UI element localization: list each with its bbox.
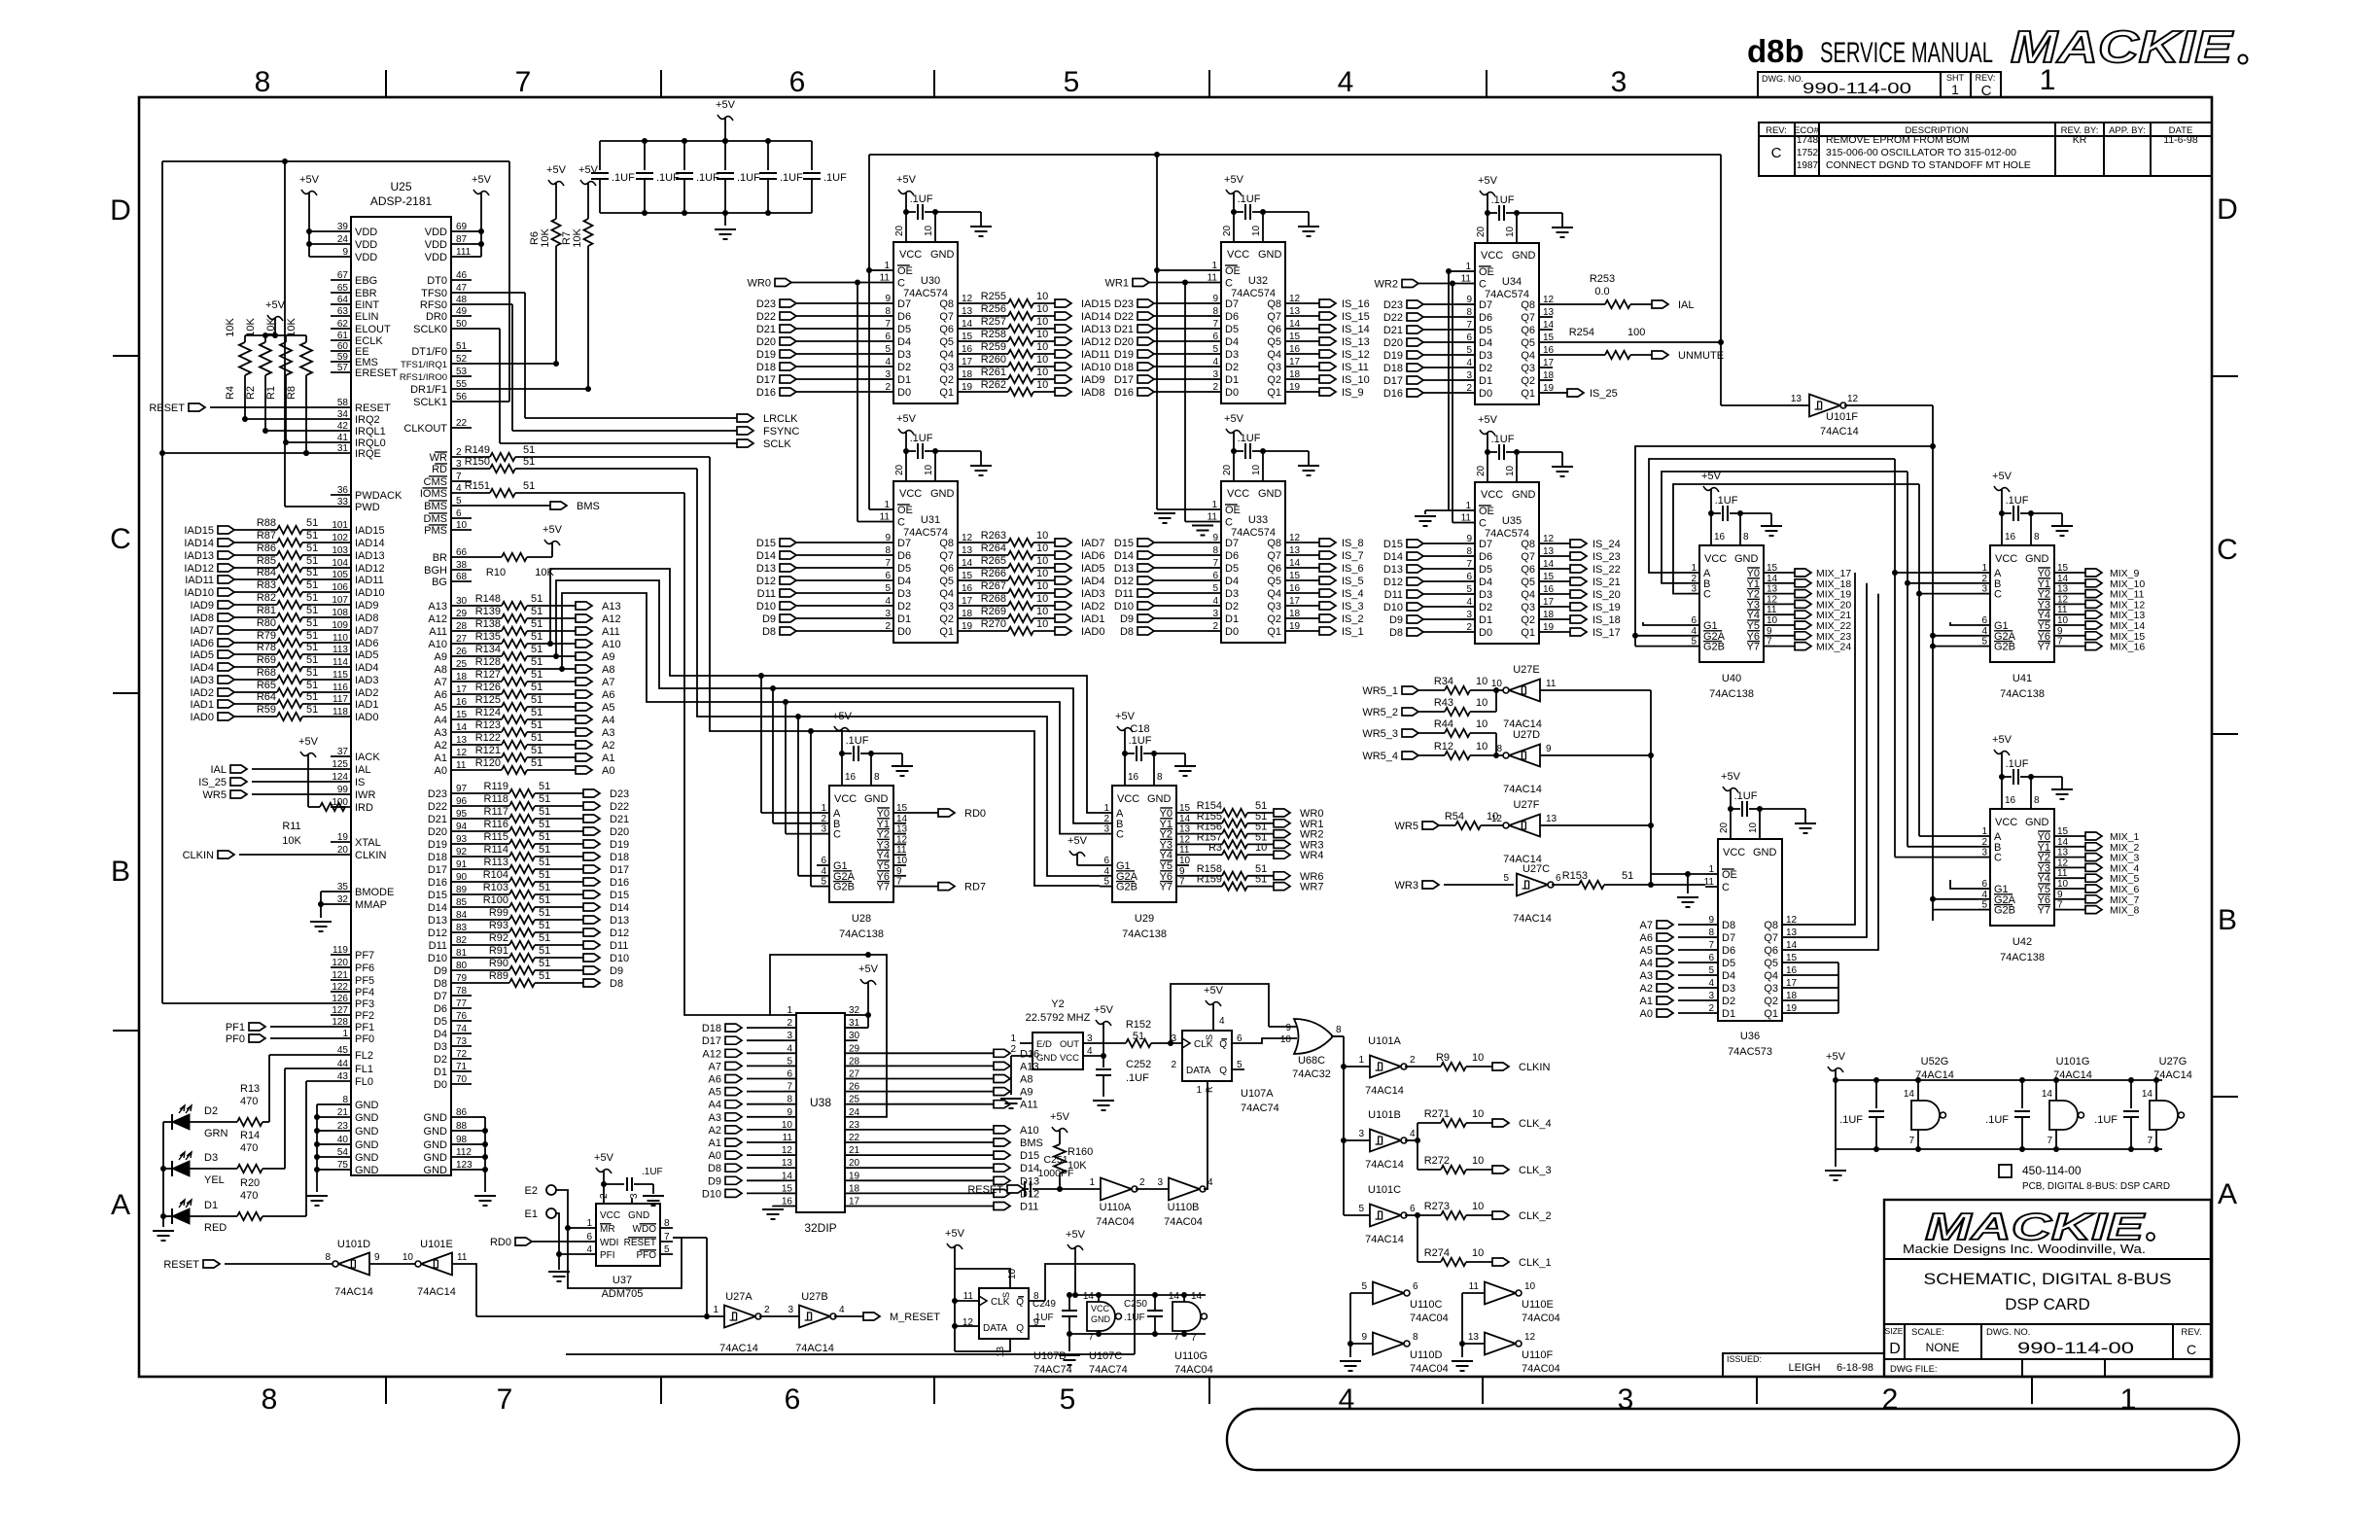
svg-text:R150: R150 <box>465 456 490 468</box>
svg-text:4: 4 <box>1103 866 1109 877</box>
svg-text:22: 22 <box>456 418 468 429</box>
svg-text:U36: U36 <box>1740 1031 1760 1042</box>
svg-text:51: 51 <box>539 907 550 919</box>
svg-text:R89: R89 <box>489 970 508 982</box>
svg-text:85: 85 <box>456 897 468 908</box>
svg-text:TFS0: TFS0 <box>421 288 447 299</box>
svg-text:D11: D11 <box>429 940 447 952</box>
svg-text:R124: R124 <box>475 707 501 718</box>
svg-text:Mackie Designs Inc. Woodinvi: Mackie Designs Inc. Woodinville, Wa. <box>1903 1242 2146 1256</box>
svg-text:IAD12: IAD12 <box>1081 336 1111 348</box>
svg-text:D22: D22 <box>756 311 776 323</box>
svg-text:2: 2 <box>821 814 826 824</box>
svg-text:2: 2 <box>885 621 891 632</box>
svg-text:18: 18 <box>1289 369 1301 380</box>
svg-text:9: 9 <box>885 294 891 304</box>
svg-text:73: 73 <box>456 1036 468 1047</box>
svg-text:R151: R151 <box>465 480 490 492</box>
svg-text:3: 3 <box>1466 610 1472 620</box>
svg-text:51: 51 <box>539 806 550 818</box>
svg-text:2: 2 <box>1212 621 1218 632</box>
svg-text:10: 10 <box>1524 1281 1536 1292</box>
svg-text:9: 9 <box>1466 295 1472 305</box>
svg-text:RFS0: RFS0 <box>420 299 447 311</box>
svg-text:D4: D4 <box>897 576 911 587</box>
svg-text:39: 39 <box>337 222 349 232</box>
svg-text:7: 7 <box>2057 900 2063 911</box>
svg-text:12: 12 <box>1543 534 1555 544</box>
svg-text:Q7: Q7 <box>1521 312 1535 324</box>
svg-text:88: 88 <box>456 1121 468 1132</box>
svg-text:Q5: Q5 <box>1267 336 1281 348</box>
svg-text:R119: R119 <box>484 781 508 792</box>
svg-text:Q6: Q6 <box>939 324 954 335</box>
svg-text:3: 3 <box>1103 824 1109 835</box>
svg-text:5: 5 <box>1212 583 1218 594</box>
svg-text:D2: D2 <box>1722 996 1735 1007</box>
svg-text:D11: D11 <box>757 588 776 600</box>
svg-text:D2: D2 <box>1479 602 1492 613</box>
svg-text:68: 68 <box>456 572 468 582</box>
svg-text:D15: D15 <box>610 890 629 901</box>
svg-text:122: 122 <box>332 982 348 993</box>
svg-text:10: 10 <box>1036 303 1048 315</box>
svg-text:GND: GND <box>355 1139 379 1151</box>
svg-text:16: 16 <box>1289 583 1301 594</box>
svg-text:Q: Q <box>1219 1039 1227 1050</box>
svg-text:PF5: PF5 <box>355 975 374 987</box>
svg-text:7: 7 <box>2057 637 2063 647</box>
svg-text:17: 17 <box>456 684 468 695</box>
svg-text:48: 48 <box>456 295 468 305</box>
svg-text:470: 470 <box>240 1096 258 1107</box>
svg-text:GND: GND <box>1147 793 1172 805</box>
svg-text:11: 11 <box>456 760 467 771</box>
svg-text:19: 19 <box>1543 622 1555 633</box>
svg-text:51: 51 <box>531 757 542 769</box>
svg-text:74AC32: 74AC32 <box>1292 1068 1331 1080</box>
svg-text:8: 8 <box>1413 1332 1418 1343</box>
svg-text:WR5: WR5 <box>1395 821 1418 832</box>
svg-text:D1: D1 <box>1722 1008 1735 1020</box>
svg-text:D3: D3 <box>1479 350 1492 362</box>
svg-text:R272: R272 <box>1424 1155 1450 1167</box>
svg-text:103: 103 <box>332 545 348 556</box>
svg-text:VCC: VCC <box>1091 1304 1110 1313</box>
svg-text:WR5_3: WR5_3 <box>1362 728 1398 740</box>
svg-text:12: 12 <box>1179 834 1191 845</box>
svg-text:IWR: IWR <box>355 789 375 801</box>
svg-text:10: 10 <box>924 464 934 475</box>
svg-text:16: 16 <box>2005 532 2016 542</box>
svg-text:RD7: RD7 <box>964 882 986 893</box>
svg-text:D19: D19 <box>1114 349 1134 361</box>
svg-text:D2: D2 <box>434 1054 447 1066</box>
svg-text:IAD2: IAD2 <box>355 687 378 699</box>
svg-text:LEIGH: LEIGH <box>1788 1362 1820 1374</box>
svg-text:32DIP: 32DIP <box>804 1221 836 1235</box>
svg-text:U107A: U107A <box>1241 1088 1274 1100</box>
svg-text:27: 27 <box>456 634 468 645</box>
svg-text:D9: D9 <box>1389 614 1403 626</box>
svg-text:.1UF: .1UF <box>1839 1114 1863 1126</box>
svg-text:IAD8: IAD8 <box>191 612 214 624</box>
svg-text:14: 14 <box>1289 558 1301 569</box>
svg-text:Q1: Q1 <box>1521 388 1535 400</box>
svg-text:REV:: REV: <box>1766 125 1787 136</box>
svg-text:D14: D14 <box>1114 550 1134 562</box>
svg-text:5: 5 <box>821 877 826 888</box>
svg-text:IAD5: IAD5 <box>191 649 214 661</box>
svg-text:81: 81 <box>456 948 468 959</box>
svg-text:A10: A10 <box>602 639 621 650</box>
svg-text:6: 6 <box>1103 856 1109 866</box>
svg-text:14: 14 <box>1767 574 1778 584</box>
svg-text:A6: A6 <box>709 1074 721 1086</box>
svg-text:R81: R81 <box>257 605 276 616</box>
svg-text:IAD9: IAD9 <box>191 600 214 612</box>
svg-text:74: 74 <box>456 1024 468 1034</box>
svg-text:990-114-00: 990-114-00 <box>1802 81 1911 97</box>
svg-text:IAD5: IAD5 <box>355 649 378 661</box>
svg-text:2: 2 <box>1010 1044 1016 1055</box>
svg-text:8: 8 <box>2034 532 2040 542</box>
svg-text:VDD: VDD <box>355 252 377 263</box>
svg-text:DATA: DATA <box>1186 1066 1211 1076</box>
svg-text:3: 3 <box>787 1305 793 1315</box>
svg-text:51: 51 <box>531 656 542 668</box>
svg-text:R160: R160 <box>1067 1146 1093 1158</box>
svg-text:IAD6: IAD6 <box>355 638 378 649</box>
svg-text:R99: R99 <box>489 907 508 919</box>
svg-text:Q1: Q1 <box>939 626 954 638</box>
svg-text:3: 3 <box>1212 609 1218 619</box>
svg-text:60: 60 <box>337 341 349 352</box>
svg-text:1987: 1987 <box>1797 160 1819 171</box>
svg-text:D3: D3 <box>204 1152 218 1164</box>
svg-text:19: 19 <box>962 382 973 393</box>
svg-text:470: 470 <box>240 1142 258 1154</box>
svg-text:D16: D16 <box>1383 388 1403 400</box>
svg-text:55: 55 <box>456 379 468 390</box>
svg-text:D18: D18 <box>610 852 629 863</box>
svg-text:10: 10 <box>1036 580 1048 592</box>
svg-text:WR0: WR0 <box>748 278 771 290</box>
svg-text:4: 4 <box>885 357 891 367</box>
svg-text:MMAP: MMAP <box>355 899 387 911</box>
svg-text:D5: D5 <box>897 324 911 335</box>
svg-text:BMS: BMS <box>1020 1137 1043 1149</box>
svg-text:15: 15 <box>1289 332 1301 342</box>
svg-text:D19: D19 <box>428 839 447 851</box>
svg-text:GND: GND <box>355 1126 379 1137</box>
svg-text:D23: D23 <box>610 788 629 800</box>
svg-text:OE: OE <box>897 505 913 516</box>
svg-text:WR1: WR1 <box>1105 278 1129 290</box>
svg-text:51: 51 <box>306 642 318 653</box>
svg-text:LRCLK: LRCLK <box>763 413 798 425</box>
svg-text:C: C <box>1771 145 1782 161</box>
svg-text:ELIN: ELIN <box>355 311 379 323</box>
svg-text:3: 3 <box>629 1193 640 1199</box>
svg-text:51: 51 <box>539 882 550 893</box>
svg-text:14: 14 <box>1191 1291 1203 1302</box>
svg-text:IS_4: IS_4 <box>1342 588 1364 600</box>
svg-text:Y2: Y2 <box>1051 998 1064 1010</box>
svg-text:7: 7 <box>515 66 532 98</box>
svg-text:51: 51 <box>531 669 542 681</box>
svg-text:51: 51 <box>539 831 550 843</box>
svg-text:Q7: Q7 <box>939 311 954 323</box>
svg-text:8: 8 <box>1496 744 1502 754</box>
svg-text:IAD2: IAD2 <box>1081 601 1104 612</box>
svg-text:D16: D16 <box>610 877 629 889</box>
svg-text:U110A: U110A <box>1100 1202 1132 1213</box>
svg-text:BMS: BMS <box>577 501 600 512</box>
svg-text:40: 40 <box>337 1135 349 1145</box>
svg-text:CMS: CMS <box>424 476 447 488</box>
svg-text:124: 124 <box>332 772 348 783</box>
svg-text:D15: D15 <box>1020 1150 1039 1162</box>
svg-text:R268: R268 <box>981 593 1006 605</box>
svg-text:6: 6 <box>885 571 891 581</box>
svg-text:R80: R80 <box>257 617 276 629</box>
svg-text:2: 2 <box>885 382 891 393</box>
svg-text:D13: D13 <box>756 563 776 575</box>
svg-text:IS: IS <box>355 777 365 788</box>
svg-text:7: 7 <box>664 1232 670 1242</box>
svg-text:PF1: PF1 <box>355 1022 374 1033</box>
svg-text:5: 5 <box>885 583 891 594</box>
svg-text:6: 6 <box>1981 615 1987 626</box>
svg-text:12: 12 <box>2057 857 2069 868</box>
svg-text:52: 52 <box>456 354 468 365</box>
svg-text:DWG. NO.: DWG. NO. <box>1762 74 1803 84</box>
svg-text:6: 6 <box>1466 572 1472 582</box>
svg-text:D15: D15 <box>1383 539 1403 550</box>
svg-text:GND: GND <box>864 793 889 805</box>
svg-text:Q1: Q1 <box>1267 626 1281 638</box>
svg-text:OE: OE <box>1225 265 1241 277</box>
svg-text:5: 5 <box>1691 637 1697 647</box>
svg-text:R138: R138 <box>475 618 501 630</box>
svg-text:3: 3 <box>821 824 826 835</box>
svg-text:Q4: Q4 <box>1267 588 1281 600</box>
svg-text:74AC138: 74AC138 <box>2000 688 2045 700</box>
svg-text:10: 10 <box>1036 606 1048 617</box>
svg-text:D18: D18 <box>1114 362 1134 373</box>
svg-text:R88: R88 <box>257 517 276 529</box>
svg-text:7: 7 <box>2047 1136 2052 1146</box>
svg-text:Q3: Q3 <box>1521 363 1535 374</box>
svg-text:GRN: GRN <box>204 1128 228 1139</box>
svg-text:Q7: Q7 <box>1764 932 1778 944</box>
svg-text:R113: R113 <box>484 857 508 868</box>
svg-text:D6: D6 <box>897 311 911 323</box>
svg-text:G2B: G2B <box>1994 642 2015 653</box>
svg-text:IS_1: IS_1 <box>1342 626 1364 638</box>
svg-text:+5V: +5V <box>578 164 599 176</box>
svg-text:Q8: Q8 <box>1267 298 1281 310</box>
svg-text:GND: GND <box>1753 847 1777 858</box>
svg-text:51: 51 <box>306 704 318 716</box>
svg-text:10: 10 <box>1476 697 1487 709</box>
svg-text:D5: D5 <box>1722 958 1735 969</box>
svg-text:94: 94 <box>456 822 468 832</box>
svg-text:30: 30 <box>849 1031 860 1041</box>
svg-text:PF4: PF4 <box>355 987 374 998</box>
svg-text:EBG: EBG <box>355 275 377 287</box>
svg-text:10: 10 <box>1476 718 1487 730</box>
svg-text:6: 6 <box>1691 615 1697 626</box>
svg-text:10K: 10K <box>1067 1160 1087 1172</box>
svg-text:R44: R44 <box>1434 718 1453 730</box>
svg-text:59: 59 <box>337 352 349 363</box>
svg-text:R159: R159 <box>1197 874 1222 886</box>
svg-text:IS_14: IS_14 <box>1342 324 1370 335</box>
svg-text:74AC14: 74AC14 <box>334 1286 373 1298</box>
svg-text:D13: D13 <box>428 915 447 927</box>
svg-text:51: 51 <box>539 793 550 805</box>
svg-text:U27D: U27D <box>1513 729 1540 741</box>
svg-text:6: 6 <box>456 508 462 519</box>
svg-text:A12: A12 <box>702 1048 721 1060</box>
svg-text:2: 2 <box>1410 1055 1416 1066</box>
svg-text:WDI: WDI <box>600 1238 618 1248</box>
svg-text:12: 12 <box>1289 294 1301 304</box>
svg-text:R269: R269 <box>981 606 1006 617</box>
svg-text:10K: 10K <box>572 228 583 248</box>
svg-text:D9: D9 <box>1120 613 1134 625</box>
svg-text:51: 51 <box>1622 870 1633 882</box>
svg-text:D4: D4 <box>897 336 911 348</box>
svg-text:R265: R265 <box>981 555 1006 567</box>
svg-text:12: 12 <box>1847 394 1859 404</box>
svg-text:U42: U42 <box>2012 936 2032 948</box>
svg-text:R261: R261 <box>981 367 1006 378</box>
svg-text:74AC138: 74AC138 <box>1122 928 1167 940</box>
svg-text:9: 9 <box>342 247 348 258</box>
svg-text:5: 5 <box>1212 344 1218 355</box>
svg-text:D4: D4 <box>1479 337 1492 349</box>
svg-text:U40: U40 <box>1722 673 1741 684</box>
svg-text:14: 14 <box>962 319 973 330</box>
svg-text:D4: D4 <box>1225 576 1239 587</box>
svg-text:15: 15 <box>1767 563 1778 574</box>
svg-text:.1UF: .1UF <box>1734 790 1758 802</box>
svg-text:D5: D5 <box>1225 324 1239 335</box>
svg-text:OE: OE <box>1722 869 1737 881</box>
svg-text:D3: D3 <box>897 349 911 361</box>
svg-text:108: 108 <box>332 608 348 618</box>
svg-text:DWG FILE:: DWG FILE: <box>1890 1364 1938 1375</box>
svg-text:1: 1 <box>1089 1177 1095 1188</box>
svg-text:10: 10 <box>1036 354 1048 366</box>
svg-text:Q3: Q3 <box>939 362 954 373</box>
svg-text:74AC74: 74AC74 <box>1089 1364 1128 1376</box>
svg-text:R87: R87 <box>257 530 276 542</box>
svg-text:69: 69 <box>456 222 468 232</box>
svg-text:51: 51 <box>539 781 550 792</box>
svg-text:107: 107 <box>332 595 348 606</box>
svg-text:123: 123 <box>456 1160 472 1171</box>
svg-text:17: 17 <box>1289 357 1301 367</box>
svg-text:R3: R3 <box>1208 842 1222 854</box>
svg-text:17: 17 <box>1543 597 1555 608</box>
svg-text:IS_5: IS_5 <box>1342 576 1364 587</box>
svg-text:97: 97 <box>456 784 468 794</box>
svg-text:14: 14 <box>2057 574 2069 584</box>
svg-text:RD0: RD0 <box>964 808 986 820</box>
svg-text:7: 7 <box>1466 320 1472 331</box>
svg-text:R20: R20 <box>240 1177 260 1189</box>
svg-text:5: 5 <box>1361 1281 1367 1292</box>
svg-text:R4: R4 <box>225 386 236 400</box>
svg-text:20: 20 <box>1476 226 1487 237</box>
svg-text:A0: A0 <box>602 765 614 777</box>
svg-text:.1UF: .1UF <box>1126 1072 1149 1084</box>
svg-text:64: 64 <box>337 295 349 305</box>
svg-text:PFI: PFI <box>600 1250 615 1261</box>
svg-text:CONNECT DGND TO STANDOFF MT HO: CONNECT DGND TO STANDOFF MT HOLE <box>1826 159 2031 171</box>
svg-text:PF3: PF3 <box>355 998 374 1010</box>
svg-text:IAD3: IAD3 <box>191 675 214 686</box>
svg-text:18: 18 <box>962 369 973 380</box>
svg-text:16: 16 <box>1128 772 1139 783</box>
svg-text:D0: D0 <box>1225 387 1239 399</box>
svg-text:10: 10 <box>1748 822 1759 833</box>
svg-text:14: 14 <box>1083 1291 1095 1302</box>
svg-text:D12: D12 <box>1114 576 1134 587</box>
svg-text:R115: R115 <box>484 831 508 843</box>
svg-text:D11: D11 <box>1384 589 1403 601</box>
svg-text:8: 8 <box>664 1218 670 1229</box>
svg-text:74AC138: 74AC138 <box>2000 952 2045 963</box>
svg-text:6: 6 <box>1981 879 1987 890</box>
svg-text:D2: D2 <box>204 1105 218 1117</box>
svg-text:R: R <box>1205 1086 1214 1093</box>
svg-text:Q5: Q5 <box>1521 337 1535 349</box>
svg-text:D5: D5 <box>897 563 911 575</box>
svg-text:WR4: WR4 <box>1300 850 1323 861</box>
svg-text:D7: D7 <box>897 538 911 549</box>
svg-text:41: 41 <box>337 433 349 443</box>
svg-text:A5: A5 <box>1640 945 1653 957</box>
svg-text:10: 10 <box>1036 367 1048 378</box>
svg-text:.1UF: .1UF <box>2006 495 2029 507</box>
svg-text:2: 2 <box>1171 1060 1176 1070</box>
svg-text:D18: D18 <box>1383 363 1403 374</box>
svg-text:R120: R120 <box>475 757 501 769</box>
svg-text:18: 18 <box>456 672 468 682</box>
svg-text:Q4: Q4 <box>939 349 954 361</box>
svg-text:4: 4 <box>1708 978 1714 989</box>
svg-text:IAD4: IAD4 <box>191 662 214 674</box>
svg-text:51: 51 <box>306 654 318 666</box>
svg-text:74AC14: 74AC14 <box>1915 1069 1954 1081</box>
svg-text:IAL: IAL <box>1678 299 1695 311</box>
svg-text:R83: R83 <box>257 579 276 591</box>
svg-text:5: 5 <box>885 344 891 355</box>
svg-text:D16: D16 <box>1114 387 1134 399</box>
svg-text:D1: D1 <box>434 1067 447 1078</box>
svg-text:100: 100 <box>1627 327 1645 338</box>
svg-text:A2: A2 <box>435 740 447 752</box>
svg-text:IAD12: IAD12 <box>355 563 385 575</box>
svg-text:51: 51 <box>306 617 318 629</box>
svg-text:YEL: YEL <box>204 1174 225 1186</box>
svg-text:5: 5 <box>1981 900 1987 911</box>
